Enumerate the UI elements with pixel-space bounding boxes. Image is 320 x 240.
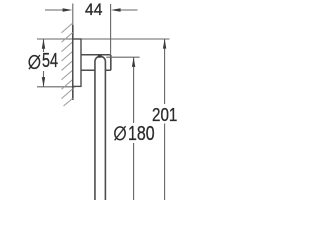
- dimension text 54: [42, 50, 58, 73]
- dimension text 180: [128, 123, 155, 146]
- dimension text 201: [152, 105, 177, 126]
- 201 dimension line (lower segment): [164, 124, 166, 201]
- Ø180 up arrowhead: [132, 57, 135, 67]
- Ø54 up arrowhead: [42, 39, 45, 49]
- wall extension line (thin upper part, 44 left extension): [72, 4, 74, 26]
- towel ring (Ø180, edge-on): [95, 56, 105, 201]
- Ø54 dimension line (lower segment): [43, 71, 45, 87]
- wall hatching: [62, 23, 73, 106]
- ring hanger stub (dark blob at ring top): [98, 55, 102, 58]
- 44 dimension line left segment with right-pointing arrowhead: [45, 9, 66, 11]
- 201 dimension line (upper segment): [164, 39, 166, 104]
- holder front face: [110, 55, 112, 70]
- diameter symbol of Ø 180 label: [115, 126, 126, 140]
- 44 right extension line: [110, 4, 112, 54]
- Ø180 top extension line: [106, 56, 139, 58]
- dimension text 44: [85, 0, 102, 20]
- top extension line (product top, serves Ø54 top and 201 top): [37, 38, 170, 40]
- 44 dimension line right segment with left-pointing arrowhead: [117, 9, 138, 11]
- Ø54 dimension line (upper segment): [43, 39, 45, 52]
- holder arm bottom line: [81, 69, 111, 71]
- Ø180 dimension line (upper segment): [133, 57, 135, 123]
- 201 up arrowhead: [163, 39, 166, 49]
- escutcheon plate (Ø54 wall plate, side view): [73, 39, 81, 86]
- Ø180 dimension line (lower segment): [133, 143, 135, 200]
- diameter symbol of Ø 54 label: [29, 55, 40, 69]
- holder arm top line: [81, 54, 111, 56]
- Ø54 bottom extension line: [37, 86, 75, 88]
- wall line: [72, 25, 74, 100]
- Ø54 down arrowhead: [42, 77, 45, 87]
